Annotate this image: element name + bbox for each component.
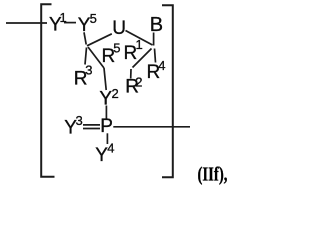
svg-text:2: 2 [135,74,142,89]
svg-text:4: 4 [107,141,114,156]
svg-text:P: P [100,116,113,137]
svg-text:5: 5 [90,11,97,26]
svg-text:4: 4 [158,58,165,73]
svg-text:2: 2 [112,86,119,101]
svg-text:3: 3 [76,113,83,128]
svg-text:1: 1 [60,10,67,25]
svg-text:1: 1 [136,37,143,52]
svg-text:B: B [150,14,163,36]
svg-text:3: 3 [85,62,92,77]
svg-text:(IIf),: (IIf), [198,162,228,186]
svg-text:Y: Y [99,89,112,110]
svg-text:5: 5 [113,41,120,56]
svg-text:U: U [112,18,126,39]
